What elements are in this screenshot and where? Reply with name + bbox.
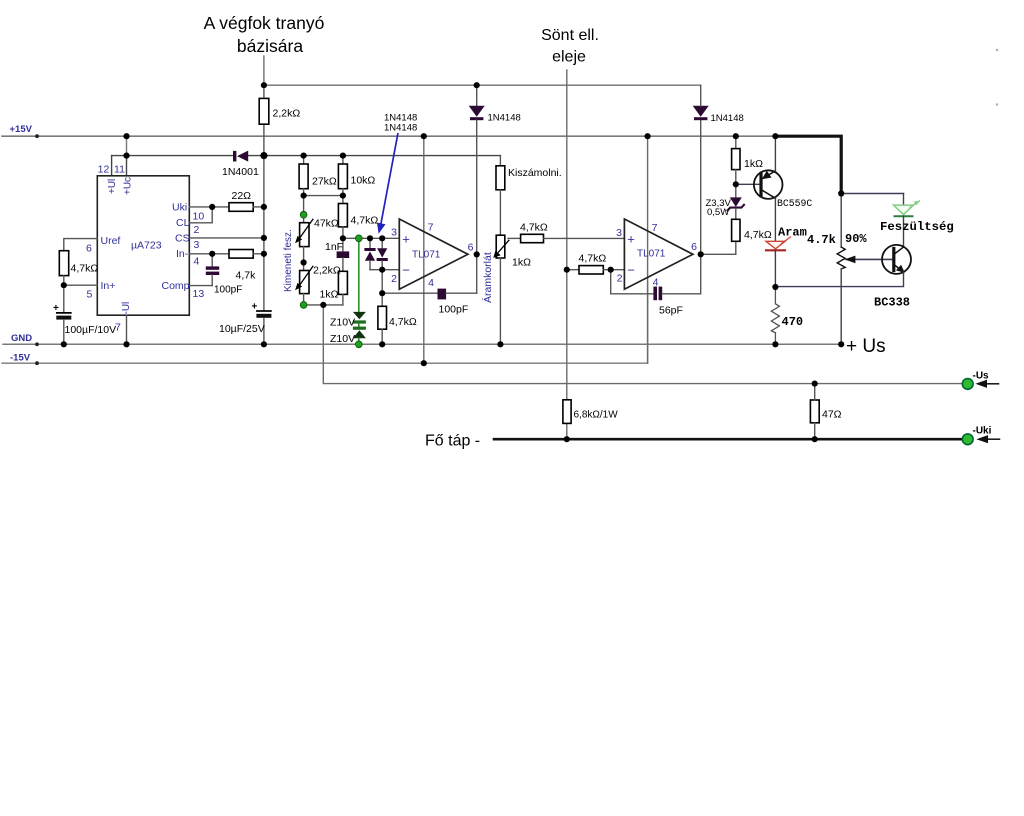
svg-text:100µF/10V: 100µF/10V bbox=[65, 324, 117, 336]
svg-text:27kΩ: 27kΩ bbox=[312, 176, 337, 188]
capacitor 100pF (op-amp1 feedback) bbox=[438, 289, 447, 300]
wire: 4.7k to op-amp2 + input bbox=[544, 237, 625, 239]
wire: blue callout arrow to clamp diodes bbox=[381, 133, 399, 226]
node: feedback row junction bbox=[379, 290, 385, 296]
node: +Us rail / 470 bbox=[772, 341, 778, 347]
svg-text:-Us: -Us bbox=[973, 371, 990, 382]
node -Us rail bbox=[323, 305, 962, 384]
svg-text:4,7kΩ: 4,7kΩ bbox=[520, 222, 548, 234]
svg-text:CL: CL bbox=[176, 217, 190, 229]
wire: 4.7k bottom to + input node bbox=[342, 227, 344, 238]
potentiometer 4.7k 90% (zigzag) bbox=[837, 247, 845, 269]
node GND rail bbox=[3, 343, 841, 345]
svg-text:4: 4 bbox=[428, 277, 434, 289]
resistor 1kΩ (divider bottom) bbox=[338, 271, 347, 294]
node: top rail / output1 diode bbox=[474, 82, 480, 88]
svg-text:+: + bbox=[627, 232, 635, 247]
resistor 22Ω bbox=[229, 203, 253, 212]
wire: Uref pin6 to left divider bbox=[64, 239, 98, 251]
svg-text:Fő táp -: Fő táp - bbox=[425, 433, 480, 450]
svg-text:Kiszámolni.: Kiszámolni. bbox=[508, 167, 562, 179]
resistor 2,2kΩ (base feed) bbox=[259, 98, 269, 124]
resistor 4,7kΩ (Uref divider) bbox=[59, 251, 68, 276]
svg-text:bázisára: bázisára bbox=[237, 36, 303, 56]
zener diode Z3,3V 0,5W bbox=[730, 197, 742, 207]
wire: 56pF to output2 vertical bbox=[662, 254, 701, 293]
wire: row from thick node to Feszültség LED bbox=[841, 193, 903, 195]
node: small blob on GND rail bbox=[35, 342, 39, 346]
transistor Q2 BC338 (NPN) bbox=[882, 245, 911, 274]
svg-text:11: 11 bbox=[114, 164, 125, 176]
resistor 470 (zigzag) bbox=[774, 287, 776, 304]
svg-text:470: 470 bbox=[782, 315, 804, 329]
wire: 4.7k to op-amp2 - input bbox=[603, 269, 624, 271]
wire: pot bottom down to +Us rail bbox=[840, 269, 842, 344]
svg-text:22Ω: 22Ω bbox=[232, 190, 252, 202]
diode 1N4148 (op-amp1 output to top rail) bbox=[469, 106, 485, 117]
svg-text:47kΩ: 47kΩ bbox=[314, 218, 339, 230]
wire: thick node row to pot 4.7k bbox=[840, 194, 842, 248]
resistor 4,7kΩ (current-limit series) bbox=[521, 234, 544, 242]
resistor 27kΩ bbox=[299, 164, 308, 189]
wire: op-amp2 supply vertical (pin7/pin4) bbox=[647, 136, 649, 363]
svg-text:1kΩ: 1kΩ bbox=[512, 257, 531, 269]
wire: feedback row to 100pF bbox=[382, 292, 437, 294]
wire: Sönt line below 6.8k resistor bbox=[566, 423, 568, 439]
resistor 6,8kΩ/1W bbox=[563, 400, 571, 424]
node: 27k/47k junction bbox=[301, 193, 307, 199]
svg-text:10: 10 bbox=[193, 211, 205, 223]
node: op-amp1 + input bbox=[340, 235, 346, 241]
svg-text:Aram: Aram bbox=[778, 226, 807, 240]
wire: 2.2k bottom leg down through +15V crossing to 1N4001 node bbox=[263, 124, 265, 155]
node: BC559C base / zener bbox=[733, 181, 739, 187]
svg-text:Kimeneti fesz.: Kimeneti fesz. bbox=[283, 229, 294, 292]
svg-text:4,7kΩ: 4,7kΩ bbox=[351, 215, 379, 227]
svg-text:+15V: +15V bbox=[10, 124, 33, 135]
wire: LED to emitter row node bbox=[774, 250, 776, 287]
wire: 1nF to 1k bbox=[342, 258, 344, 271]
svg-text:In+: In+ bbox=[101, 280, 116, 292]
node: +15V / µA723 supply bbox=[123, 133, 129, 139]
wire: In- pin4 bbox=[189, 253, 229, 255]
potentiometer 2,2kΩ (Kimeneti fesz.) bbox=[300, 271, 309, 294]
svg-text:100pF: 100pF bbox=[439, 304, 469, 316]
wire: output1 node to 1N4148 top bbox=[476, 85, 478, 106]
node: GND / 100uF bbox=[61, 341, 67, 347]
svg-text:4,7k: 4,7k bbox=[236, 270, 257, 282]
node: clamp diode left top bbox=[367, 235, 373, 241]
node: 47k/2.2k pot junction bbox=[301, 259, 307, 265]
resistor 4,7kΩ (BC559C branch) bbox=[732, 219, 740, 241]
µA723 U1 box bbox=[97, 176, 189, 315]
zener diode Z10V (upper) bbox=[353, 312, 366, 319]
svg-text:0,5W: 0,5W bbox=[707, 207, 729, 218]
capacitor 100pF (comp) bbox=[206, 266, 219, 269]
resistor 10kΩ bbox=[338, 164, 347, 189]
resistor 4,7k (In- series) bbox=[229, 250, 253, 259]
svg-text:2,2kΩ: 2,2kΩ bbox=[273, 108, 301, 120]
node: In+ / 4.7k / 100uF bbox=[61, 282, 67, 288]
node: green tap + input row bbox=[355, 235, 362, 242]
svg-text:6,8kΩ/1W: 6,8kΩ/1W bbox=[574, 410, 619, 421]
node: GND / 4.7k bbox=[379, 341, 385, 347]
wire: CL pin2 tied up to Uki bbox=[189, 207, 212, 223]
node: -15V / op-amp1 pin4 bbox=[421, 360, 427, 366]
svg-text:2: 2 bbox=[194, 224, 200, 236]
node: 22Ω right bbox=[261, 204, 267, 210]
node: top rail / bázisára junction bbox=[261, 82, 267, 88]
wire: 27k top leg bbox=[303, 156, 305, 164]
wire: In+ node down to 100uF cap bbox=[63, 285, 65, 312]
wire: 2.2k pot bottom to green tap bbox=[303, 294, 305, 305]
wire: BC559C collector down to LED bbox=[774, 198, 776, 241]
wire: - node down to feedback row bbox=[381, 270, 383, 294]
node: small blob on +15V rail bbox=[35, 134, 39, 138]
potentiometer 1kΩ (Áramkorlát) bbox=[496, 235, 505, 258]
resistor 4,7kΩ (op-amp1 - to GND) bbox=[378, 306, 387, 329]
wire: +15V thick segment to right bbox=[775, 136, 841, 193]
svg-text:A végfok tranyó: A végfok tranyó bbox=[204, 13, 325, 33]
node: Sönt / op-amp2 - bbox=[564, 267, 570, 273]
resistor 47Ω bbox=[810, 400, 819, 423]
svg-text:10µF/25V: 10µF/25V bbox=[219, 323, 265, 335]
node: green tap 47k pot top bbox=[300, 211, 307, 218]
svg-text:10kΩ: 10kΩ bbox=[351, 175, 376, 187]
wire: CS pin3 bbox=[189, 237, 264, 239]
wire: op-amp1 supply vertical (pin7/pin4) bbox=[423, 136, 425, 363]
wire: wiper row to 4.7k series bbox=[508, 237, 521, 239]
svg-text:BC559C: BC559C bbox=[777, 198, 812, 209]
wire: node to 47k pot green tap bbox=[303, 196, 305, 223]
svg-text:-Uki: -Uki bbox=[973, 426, 992, 437]
op-amp U3 TL071 (current amp) bbox=[624, 219, 693, 289]
wire: link 27k/10k junction row bbox=[304, 195, 343, 197]
wire: vertical x=264 from 1N4001 node down to 10uF cap bbox=[263, 156, 265, 311]
svg-text:4,7kΩ: 4,7kΩ bbox=[744, 229, 772, 241]
svg-text:eleje: eleje bbox=[552, 49, 586, 66]
wire: 47Ω legs bbox=[814, 384, 816, 400]
svg-text:100pF: 100pF bbox=[214, 285, 242, 296]
svg-text:CS: CS bbox=[175, 233, 190, 245]
node: LED / 470 / emitter row bbox=[772, 284, 778, 290]
svg-text:µA723: µA723 bbox=[131, 240, 162, 252]
svg-text:4.7k: 4.7k bbox=[807, 233, 836, 247]
diode 1N4148 (input clamp left, pointing up) bbox=[369, 238, 371, 248]
svg-text:1kΩ: 1kΩ bbox=[320, 289, 339, 301]
node: 10k/4.7k junction bbox=[340, 193, 346, 199]
wire: 1k pot bottom to GND bbox=[499, 258, 501, 344]
svg-text:7: 7 bbox=[652, 222, 658, 234]
node: green tap GND bbox=[355, 341, 362, 348]
svg-text:1N4001: 1N4001 bbox=[222, 166, 259, 178]
svg-text:90%: 90% bbox=[845, 232, 867, 246]
terminal -Us (green) bbox=[962, 379, 973, 390]
node: +15V / op-amp2 pin7 bbox=[645, 133, 651, 139]
svg-text:Uki: Uki bbox=[172, 202, 187, 214]
wire: BC559C emitter up to +15V bbox=[774, 136, 776, 171]
wire: 1k bottom leg bbox=[342, 294, 344, 305]
svg-text:-15V: -15V bbox=[10, 353, 31, 364]
node: 10k top bbox=[340, 153, 346, 159]
svg-text:13: 13 bbox=[193, 288, 205, 300]
node: -Us rail / 47Ω bbox=[812, 381, 818, 387]
node: op-amp1 output bbox=[474, 251, 480, 257]
wire: wiper arrow from BC338 base bbox=[847, 258, 894, 260]
wire: op-amp1 - input row bbox=[370, 269, 399, 271]
resistor Kiszámolni (to be calculated) bbox=[496, 166, 505, 190]
resistor 4,7kΩ (op-amp2 - input) bbox=[579, 266, 603, 274]
wire: base-feed vertical x=264 (2.2k top leg from top rail) bbox=[263, 85, 265, 98]
svg-text:4,7kΩ: 4,7kΩ bbox=[579, 253, 607, 265]
wire: 22Ω to x=264 vertical bbox=[253, 206, 264, 208]
svg-text:Uref: Uref bbox=[101, 235, 121, 247]
node: clamp diode right top bbox=[379, 235, 385, 241]
svg-text:2: 2 bbox=[391, 273, 397, 285]
wire: 1N4001 row (pins 12/11 to divider tops) bbox=[112, 155, 234, 157]
wire: Comp pin13 bbox=[189, 285, 212, 287]
potentiometer 47kΩ (Kimeneti fesz.) bbox=[300, 223, 309, 247]
wire: drop from 'A végfok tranyó bázisára' text bbox=[263, 56, 265, 85]
node: small blob on -15V rail bbox=[35, 361, 39, 365]
node: +15V / BC559C emitter bbox=[772, 133, 778, 139]
svg-text:7: 7 bbox=[428, 222, 434, 234]
svg-text:1N4148: 1N4148 bbox=[384, 123, 417, 134]
svg-text:3: 3 bbox=[194, 239, 200, 251]
wire: green measuring net vertical bbox=[358, 238, 360, 312]
node Fő táp - rail bbox=[494, 438, 962, 441]
svg-text:5: 5 bbox=[87, 289, 93, 301]
svg-text:1N4148: 1N4148 bbox=[488, 113, 521, 124]
svg-text:56pF: 56pF bbox=[659, 305, 683, 317]
wire: - node down to 56pF feedback row bbox=[611, 270, 654, 294]
svg-text:6: 6 bbox=[86, 243, 92, 255]
node: thick corner / LED row bbox=[838, 190, 844, 196]
diode 1N4148 (op-amp2 output to top rail) bbox=[693, 106, 709, 117]
svg-text:Áramkorlát: Áramkorlát bbox=[481, 252, 494, 303]
svg-text:Feszültség: Feszültség bbox=[880, 220, 954, 234]
svg-text:4,7kΩ: 4,7kΩ bbox=[389, 316, 417, 328]
node: In- right bbox=[261, 251, 267, 257]
svg-text:TL071: TL071 bbox=[412, 250, 441, 261]
node: Fő táp / 47Ω bbox=[812, 436, 818, 442]
svg-text:Comp: Comp bbox=[162, 280, 190, 292]
node: op-amp2 output bbox=[698, 251, 704, 257]
svg-text:+ Us: + Us bbox=[846, 336, 886, 357]
wire: BC559C base wire bbox=[736, 183, 760, 185]
wire: In+ pin5 bbox=[64, 284, 98, 286]
wire: op-amp1 + input row bbox=[343, 237, 399, 239]
node: pin11/12 row bbox=[123, 153, 129, 159]
node -15V rail bbox=[2, 282, 648, 363]
svg-text:+Uc: +Uc bbox=[123, 177, 134, 195]
svg-text:Z10V: Z10V bbox=[330, 317, 355, 329]
resistor 4,7kΩ (divider) bbox=[338, 204, 347, 227]
svg-text:Z10V: Z10V bbox=[330, 333, 355, 345]
LED Aram (red) bbox=[766, 241, 785, 249]
wire: Kiszámolni leg from 1N4001 row bbox=[499, 156, 501, 166]
zener diode Z10V (lower) bbox=[353, 327, 366, 330]
node: Uki/CL junction bbox=[209, 204, 215, 210]
svg-text:1N4148: 1N4148 bbox=[711, 113, 744, 124]
node: op-amp2 - input bbox=[608, 267, 614, 273]
node: 27k top bbox=[301, 153, 307, 159]
LED Feszültség (green) bbox=[894, 205, 914, 215]
svg-text:47Ω: 47Ω bbox=[822, 409, 842, 421]
node: top rail (A végfok tranyó bázisára net) bbox=[264, 84, 701, 86]
svg-text:2,2kΩ: 2,2kΩ bbox=[313, 265, 341, 277]
wire: output1 vertical down to feedback row bbox=[476, 254, 478, 293]
wire: Sönt ell. eleje vertical bbox=[566, 70, 568, 400]
wire: 10k to 4.7k bbox=[342, 189, 344, 204]
svg-text:TL071: TL071 bbox=[637, 249, 666, 260]
wire: node down through 4.7k to GND bbox=[381, 293, 383, 306]
wire: BC338 emitter down and back to node row bbox=[775, 272, 903, 287]
svg-text:BC338: BC338 bbox=[874, 296, 910, 310]
node: CS right bbox=[261, 235, 267, 241]
svg-text:1kΩ: 1kΩ bbox=[744, 158, 763, 170]
wire: µA723 pin12 leg bbox=[111, 156, 113, 176]
diode 1N4001 bbox=[233, 151, 236, 162]
node: divider bottom / -Us takeoff bbox=[320, 302, 326, 308]
svg-text:6: 6 bbox=[468, 242, 474, 254]
svg-text:3: 3 bbox=[616, 227, 622, 239]
svg-text:+: + bbox=[402, 232, 410, 247]
svg-text:4: 4 bbox=[194, 256, 200, 268]
wire: output2 to BC559C branch bbox=[701, 241, 736, 254]
node: +15V / 1k BC559C bbox=[733, 133, 739, 139]
svg-text:GND: GND bbox=[11, 333, 32, 344]
wire: 4.7k bottom to In+ node bbox=[63, 276, 65, 286]
svg-text:4,7kΩ: 4,7kΩ bbox=[71, 263, 99, 275]
resistor 1kΩ (BC559C base) bbox=[735, 136, 737, 148]
transistor Q1 BC559C (PNP) bbox=[754, 170, 783, 199]
wire: Kiszámolni resistor to 1k pot bbox=[499, 190, 501, 235]
node: Fő táp / 6.8k bbox=[564, 436, 570, 442]
node: +Us rail / pot end bbox=[838, 341, 844, 347]
capacitor 56pF (op-amp2 feedback) bbox=[653, 287, 657, 301]
node: GND / 10uF bbox=[261, 341, 267, 347]
node: +15V / op-amp1 pin7 bbox=[421, 133, 427, 139]
node +15V rail bbox=[2, 135, 775, 137]
wire: 27k bottom to node bbox=[303, 189, 305, 196]
wire: In- node down to 100pF bbox=[211, 254, 213, 267]
wire: µA723 pin11/pin12 feed from +15V bbox=[126, 136, 128, 155]
wire: output2 node up to 1N4148 bbox=[700, 120, 702, 254]
node: green tap divider bottom bbox=[300, 302, 307, 309]
node: In- cap junction bbox=[209, 251, 215, 257]
wire: op-amp2 - input from Sönt line bbox=[567, 269, 579, 271]
wire: 10k top leg bbox=[342, 156, 344, 164]
wire: LED to BC338 collector bbox=[903, 216, 905, 247]
svg-text:6: 6 bbox=[691, 241, 697, 253]
node: op-amp1 - input bbox=[379, 267, 385, 273]
diode 1N4148 (input clamp right, pointing down) bbox=[381, 238, 383, 248]
terminal -Uki (green) bbox=[962, 434, 973, 445]
svg-text:In-: In- bbox=[176, 248, 189, 260]
svg-text:2: 2 bbox=[617, 273, 623, 285]
wire: vertical x=264 from 10uF cap to GND bbox=[263, 319, 265, 345]
wire: divider bottom row to 1k bottom bbox=[304, 304, 343, 306]
svg-text:1nF: 1nF bbox=[325, 241, 343, 253]
op-amp U2 TL071 (error amp) bbox=[399, 219, 468, 289]
node: GND / Áramkorlát pot bbox=[497, 341, 503, 347]
capacitor 1nF bbox=[337, 251, 350, 258]
svg-text:−: − bbox=[402, 263, 410, 278]
wire: µA723 pin7 to GND bbox=[126, 315, 128, 344]
svg-text:3: 3 bbox=[391, 227, 397, 239]
svg-text:−: − bbox=[627, 263, 635, 278]
wire: Uki pin10 bbox=[189, 206, 229, 208]
wire: 47k pot to mid node bbox=[303, 247, 305, 271]
svg-text:4: 4 bbox=[653, 277, 659, 289]
wire: µA723 pin11 leg bbox=[126, 156, 128, 176]
wire: node down to 1nF bbox=[342, 238, 344, 251]
svg-text:12: 12 bbox=[98, 164, 110, 176]
node: GND / µA723 pin7 bbox=[123, 341, 129, 347]
svg-text:+Ul: +Ul bbox=[107, 179, 118, 194]
node: 1N4001 cathode row bbox=[260, 152, 267, 159]
svg-text:Sönt ell.: Sönt ell. bbox=[541, 27, 599, 44]
svg-text:-Ul: -Ul bbox=[121, 302, 132, 315]
